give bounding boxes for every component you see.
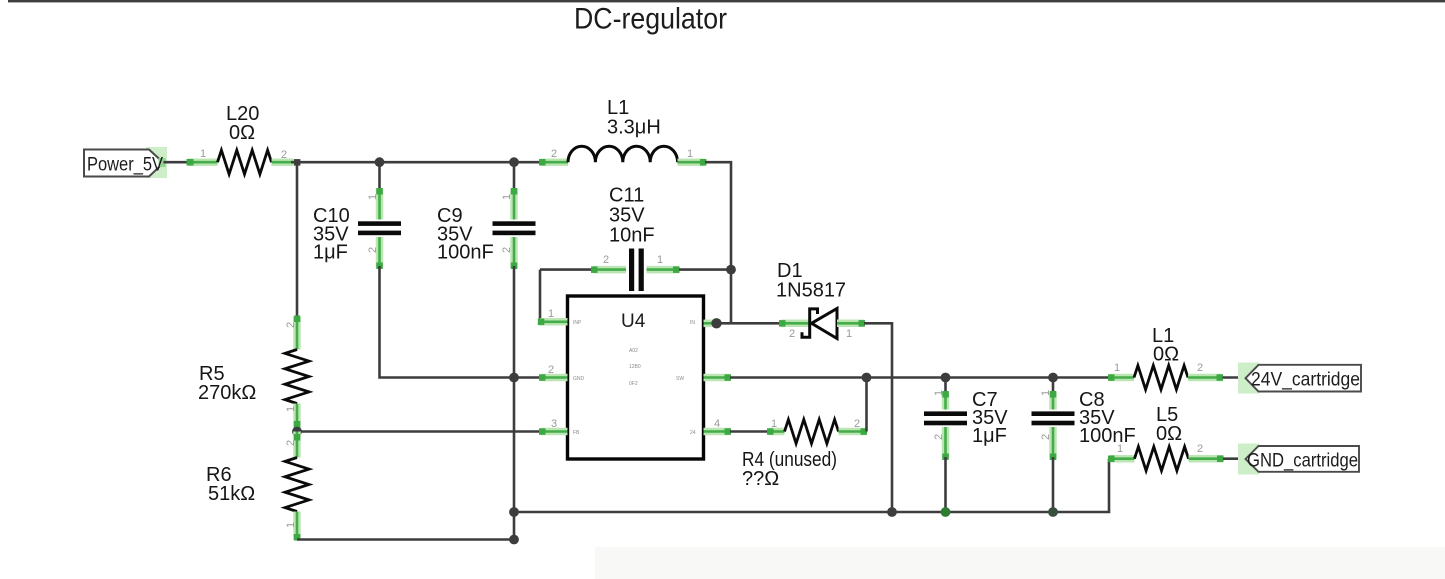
svg-text:1: 1	[285, 406, 297, 412]
junction dot C10-branch / C9 vertical	[509, 373, 519, 383]
L1(0R) pin 2 (green)	[1188, 374, 1223, 381]
svg-text:2: 2	[854, 418, 860, 430]
svg-text:1: 1	[1114, 362, 1120, 374]
inductor L1	[568, 146, 678, 162]
net flag 24V_cartridge	[1238, 363, 1361, 394]
svg-text:1: 1	[367, 194, 379, 200]
wire L1(0R) to 24V flag	[1223, 376, 1248, 379]
U4 pin 1 (green, left)	[538, 319, 568, 326]
L1 pin number labels	[551, 148, 693, 160]
capacitor C7	[924, 378, 967, 513]
svg-text:0Ω: 0Ω	[1153, 344, 1179, 366]
U4 right pin row1 (green)	[704, 320, 717, 328]
junction dot C10/top rail	[375, 157, 385, 167]
resistor L20	[218, 150, 272, 174]
junction dot C8 top	[1048, 373, 1058, 383]
svg-text:100nF: 100nF	[437, 242, 494, 264]
U4 pin 3 (green, left)	[297, 428, 568, 435]
junction dot C8 bottom	[1048, 507, 1058, 517]
svg-text:24: 24	[690, 430, 696, 436]
svg-text:1: 1	[687, 148, 693, 160]
svg-text:2: 2	[548, 364, 554, 376]
svg-text:2: 2	[501, 247, 513, 253]
svg-text:2: 2	[789, 328, 795, 340]
resistor L1 (0R)	[1134, 366, 1188, 390]
svg-text:1: 1	[933, 390, 945, 396]
wire output row to L1(0R)	[730, 376, 1112, 379]
junction dot C9/top rail	[509, 157, 519, 167]
R4 pin number labels	[771, 418, 860, 430]
C10 value labels	[313, 205, 350, 264]
svg-text:2: 2	[603, 254, 609, 266]
D1 pin number labels	[789, 328, 852, 340]
wire top rail L20 to L1	[291, 161, 541, 164]
svg-text:2: 2	[285, 322, 297, 328]
svg-text:1: 1	[771, 418, 777, 430]
svg-text:1μF: 1μF	[313, 242, 348, 264]
wire L5 to GND flag	[1223, 457, 1247, 460]
wire L1 to right corner down to C11 row	[705, 162, 731, 323]
U4 pin number labels left	[548, 308, 557, 430]
diode D1 (schottky)	[802, 309, 837, 339]
ground bus wire	[514, 459, 1109, 512]
L1(0R) value labels	[1152, 325, 1179, 366]
svg-text:FB: FB	[573, 430, 580, 436]
L1 value labels	[607, 97, 661, 139]
wire C10 bottom to pin2 row	[380, 266, 515, 378]
R6 pin 2 (green top)	[294, 432, 301, 458]
svg-text:2: 2	[1197, 362, 1203, 374]
L1(0R) pin 1 (green)	[1108, 374, 1134, 381]
junction dot R4 riser	[862, 373, 872, 383]
resistor R6	[285, 458, 309, 512]
svg-text:12B0: 12B0	[629, 364, 641, 370]
resistor L5 (0R)	[1135, 447, 1189, 471]
R6 value labels	[206, 464, 255, 505]
L20 pin 2 (green)	[272, 158, 294, 166]
C8 value labels	[1079, 389, 1136, 447]
svg-text:2: 2	[367, 247, 379, 253]
svg-text:DC-regulator: DC-regulator	[574, 3, 727, 36]
R4 pin 2 (green)	[839, 428, 868, 435]
svg-text:2: 2	[551, 148, 557, 160]
wire C10 top stub	[378, 162, 381, 191]
C7 value labels	[972, 389, 1008, 447]
capacitor C11	[591, 249, 680, 292]
svg-text:2: 2	[933, 434, 945, 440]
junction dot C7 top	[941, 373, 951, 383]
U4 pin 2 (green, left)	[514, 374, 568, 381]
C9 value labels	[437, 205, 494, 264]
svg-text:IN: IN	[690, 320, 695, 326]
R5 pin number labels	[285, 322, 297, 412]
svg-text:??Ω: ??Ω	[742, 468, 779, 490]
svg-text:24V_cartridge: 24V_cartridge	[1251, 369, 1360, 391]
junction dot D1 branch / bus	[887, 507, 897, 517]
svg-text:1: 1	[548, 308, 554, 320]
wire C11 row left	[540, 268, 594, 271]
junction dot C7 bottom (green)	[941, 507, 951, 517]
IC U4 box	[568, 296, 704, 459]
svg-text:270kΩ: 270kΩ	[198, 382, 256, 404]
D1 pin 2 (green)	[779, 320, 810, 327]
D1 pin 1 (green)	[837, 320, 865, 327]
capacitor C10	[358, 188, 401, 269]
L5 pin 2 (green)	[1189, 456, 1224, 463]
wire C9 bottom down to pin2 row	[513, 266, 516, 540]
R4 value labels	[742, 449, 837, 490]
capacitor C9	[493, 188, 536, 269]
svg-text:C11: C11	[609, 185, 644, 207]
L20 value labels	[226, 103, 259, 144]
L20 pin 1 (green)	[187, 159, 218, 166]
svg-text:U4: U4	[621, 311, 646, 332]
wire Power_5V to L20 pin1	[164, 161, 191, 164]
wire U4 out to D1	[717, 322, 784, 325]
wire C9 top stub	[513, 162, 516, 191]
junction corner at R5 branch	[294, 159, 301, 166]
C10 pin number labels	[367, 194, 379, 253]
svg-text:1: 1	[1117, 443, 1123, 455]
svg-text:1: 1	[200, 148, 206, 160]
svg-text:INP: INP	[573, 320, 582, 326]
junction dot bus left	[509, 507, 519, 517]
capacitor C8	[1032, 378, 1075, 513]
wire C11 left corner down to U4 pin1	[539, 270, 542, 322]
C8 pin number labels	[1040, 390, 1052, 440]
L5 pin number labels	[1117, 443, 1203, 455]
wire pin4 to R4	[730, 430, 771, 433]
junction dot R5/R6/U4 pin3	[292, 427, 302, 437]
svg-text:3: 3	[551, 418, 557, 430]
net flag GND_cartridge	[1238, 444, 1359, 475]
svg-text:GND: GND	[573, 376, 585, 382]
net flag Power_5V	[84, 147, 167, 178]
wire R4 riser to output row	[865, 378, 868, 432]
svg-text:A02: A02	[629, 348, 638, 354]
svg-text:51kΩ: 51kΩ	[208, 483, 255, 505]
C11 value labels	[609, 185, 655, 247]
R6 pin number labels	[285, 440, 297, 528]
svg-text:2: 2	[1197, 443, 1203, 455]
U4 right pin row2 (green)	[704, 374, 732, 381]
L5 pin 1 (green)	[1108, 456, 1135, 463]
junction dot R6 wire end	[509, 535, 519, 545]
R5 value labels	[198, 363, 256, 404]
L20 pin number labels	[200, 148, 287, 161]
svg-text:1: 1	[501, 194, 513, 200]
svg-text:Power_5V: Power_5V	[87, 154, 163, 176]
L1 pin 1 (green)	[678, 159, 707, 166]
R4 pin 1 (green)	[767, 428, 785, 435]
wire D1 to corner down to bus	[864, 323, 892, 512]
svg-text:35V: 35V	[609, 205, 645, 227]
svg-text:1: 1	[846, 328, 852, 340]
svg-text:1: 1	[1040, 390, 1052, 396]
R5 pin 2 (green top)	[294, 316, 301, 350]
C11 pin number labels	[603, 254, 663, 266]
svg-text:1μF: 1μF	[972, 425, 1007, 447]
C7 pin number labels	[933, 390, 945, 440]
junction dot C11/L1 vertical	[726, 265, 736, 275]
svg-text:1: 1	[285, 522, 297, 528]
svg-text:SW: SW	[676, 376, 684, 382]
resistor R4	[785, 420, 839, 444]
L1(0R) pin number labels	[1114, 362, 1203, 374]
resistor R5	[285, 350, 309, 404]
C9 pin number labels	[501, 194, 513, 253]
svg-text:10nF: 10nF	[609, 225, 655, 247]
R5 pin 1 (green bottom)	[294, 404, 301, 430]
svg-text:0Ω: 0Ω	[229, 122, 255, 144]
svg-text:2: 2	[281, 149, 287, 161]
wire R6 bottom to C9 vertical	[297, 538, 514, 541]
D1 value labels	[776, 260, 846, 302]
svg-text:1: 1	[657, 254, 663, 266]
svg-text:1N5817: 1N5817	[776, 280, 846, 302]
svg-text:0Ω: 0Ω	[1156, 423, 1182, 445]
L1 pin 2 (green)	[539, 159, 568, 166]
junction dot U4 out / L1 branch	[711, 318, 721, 328]
U4 internal tiny pin names	[573, 320, 696, 436]
svg-text:4: 4	[714, 418, 720, 430]
wire C11 right to junction	[679, 268, 731, 271]
svg-text:GND_cartridge: GND_cartridge	[1247, 450, 1358, 472]
U4 right pin row3 (green, pin 4)	[704, 428, 732, 435]
svg-text:3.3μH: 3.3μH	[607, 117, 661, 139]
wire branch down to R5	[296, 162, 299, 319]
svg-text:2: 2	[285, 440, 297, 446]
svg-text:0F2: 0F2	[629, 381, 638, 387]
R6 pin 1 (green bottom)	[294, 512, 301, 541]
svg-text:100nF: 100nF	[1079, 425, 1136, 447]
svg-text:2: 2	[1040, 434, 1052, 440]
L5 value labels	[1156, 404, 1182, 445]
